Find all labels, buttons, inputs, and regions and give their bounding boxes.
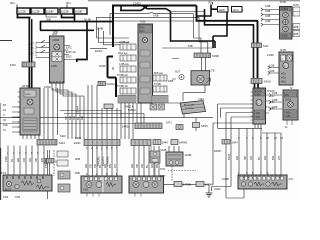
svg-text:5471: 5471 [166, 121, 172, 125]
svg-text:30+: 30+ [10, 1, 15, 5]
svg-text:4/2x: 4/2x [281, 72, 287, 76]
svg-text:BL/R: BL/R [227, 154, 231, 160]
svg-text:X: X [3, 113, 5, 117]
svg-text:31/6B: 31/6B [222, 177, 229, 181]
svg-text:54R2A: 54R2A [128, 108, 136, 112]
svg-text:SB: SB [243, 156, 247, 160]
svg-text:830B: 830B [75, 136, 81, 140]
svg-text:11C28: 11C28 [32, 10, 40, 14]
svg-text:BL: BL [10, 158, 14, 162]
svg-text:BL: BL [145, 164, 149, 168]
svg-text:*2/3B: *2/3B [160, 148, 167, 152]
svg-text:PNK/BL: PNK/BL [44, 158, 48, 168]
svg-text:31/5: 31/5 [3, 195, 9, 199]
svg-text:6/2T: 6/2T [175, 70, 181, 74]
svg-text:54R2B: 54R2B [183, 183, 191, 187]
svg-text:GN: GN [28, 158, 32, 162]
svg-text:4/5x: 4/5x [256, 116, 261, 119]
svg-text:5A16: 5A16 [59, 141, 66, 145]
svg-text:4DB: 4DB [75, 157, 80, 161]
svg-text:E4407: E4407 [95, 49, 103, 53]
svg-text:A/5B: A/5B [153, 14, 159, 18]
svg-text:57/3B wb: 57/3B wb [117, 73, 128, 77]
svg-text:3/4B: 3/4B [265, 14, 271, 18]
svg-text:5447: 5447 [232, 141, 238, 145]
svg-text:5411: 5411 [263, 44, 269, 48]
svg-text:54B: 54B [188, 44, 193, 48]
svg-text:5/12 ww: 5/12 ww [118, 51, 128, 55]
svg-text:3/2B: 3/2B [272, 105, 278, 109]
svg-text:E/5C: E/5C [66, 46, 72, 50]
svg-text:SB: SB [135, 164, 139, 168]
svg-text:2/2B: 2/2B [269, 69, 275, 73]
svg-text:4/5x: 4/5x [286, 115, 291, 118]
svg-text:30: 30 [111, 66, 115, 70]
svg-text:3/2B: 3/2B [294, 27, 299, 29]
svg-text:12/5A: 12/5A [44, 85, 51, 89]
svg-text:4/5B: 4/5B [140, 20, 146, 24]
svg-text:544/2A: 544/2A [107, 82, 115, 86]
svg-text:GN: GN [150, 164, 154, 168]
svg-text:GR: GR [235, 156, 239, 160]
svg-text:30/D8: 30/D8 [281, 35, 288, 38]
svg-text:11C4: 11C4 [233, 8, 240, 12]
svg-text:54R4A: 54R4A [205, 183, 213, 187]
svg-text:WT: WT [277, 155, 281, 160]
svg-text:C87: C87 [29, 42, 34, 46]
svg-text:PNK/BL: PNK/BL [97, 156, 101, 166]
svg-text:11C28: 11C28 [18, 10, 26, 14]
svg-text:A73B wb: A73B wb [119, 40, 130, 44]
svg-text:7423: 7423 [198, 97, 204, 101]
svg-text:CDR: CDR [53, 38, 60, 42]
svg-text:30 4B: 30 4B [84, 18, 91, 22]
svg-text:GR: GR [16, 158, 20, 162]
svg-text:4/7x: 4/7x [140, 30, 145, 33]
svg-text:1/2B: 1/2B [269, 64, 275, 68]
svg-text:100D8: 100D8 [281, 8, 289, 11]
svg-text:5449: 5449 [162, 141, 168, 145]
svg-text:R2907: R2907 [214, 149, 222, 153]
svg-text:N/TD: N/TD [280, 0, 286, 4]
svg-text:3/136: 3/136 [22, 84, 29, 88]
svg-text:BN: BN [155, 164, 159, 168]
svg-text:11D8: 11D8 [219, 8, 226, 12]
svg-text:AC COMP: AC COMP [184, 104, 195, 107]
svg-text:12/5x: 12/5x [51, 64, 58, 68]
svg-text:1/TB: 1/TB [209, 69, 215, 73]
svg-text:4/5x: 4/5x [281, 80, 287, 84]
svg-text:57/3B wb: 57/3B wb [117, 84, 128, 88]
svg-text:1/2B: 1/2B [272, 91, 278, 95]
svg-text:M/8 ww: M/8 ww [154, 71, 163, 75]
svg-text:CAM: CAM [255, 94, 260, 97]
svg-text:5410: 5410 [60, 134, 66, 138]
svg-text:31/4B: 31/4B [97, 27, 104, 31]
svg-text:54/9B: 54/9B [212, 54, 219, 58]
svg-text:30B: 30B [46, 18, 51, 22]
svg-text:30/38: 30/38 [99, 64, 106, 68]
svg-text:BN: BN [108, 164, 112, 168]
svg-text:57/3B: 57/3B [154, 82, 161, 86]
svg-text:4/56: 4/56 [53, 30, 59, 34]
svg-text:C87: C87 [29, 52, 34, 56]
svg-text:3/136: 3/136 [25, 94, 31, 96]
svg-text:N/TB: N/TB [280, 48, 286, 52]
svg-text:N/TL: N/TL [160, 167, 166, 171]
svg-text:SB: SB [89, 164, 93, 168]
svg-text:31/62: 31/62 [214, 187, 221, 191]
svg-text:4/2x: 4/2x [256, 112, 261, 115]
svg-text:BN: BN [271, 156, 275, 160]
svg-text:12/3B: 12/3B [185, 153, 192, 157]
svg-text:PNK: PNK [4, 156, 8, 162]
svg-text:4/2x: 4/2x [286, 111, 291, 114]
svg-text:15E: 15E [3, 123, 8, 127]
svg-text:IV: IV [290, 86, 293, 90]
svg-text:E/5C wb: E/5C wb [66, 50, 76, 54]
svg-text:BL: BL [257, 156, 261, 160]
svg-text:4/5x: 4/5x [281, 76, 287, 80]
svg-text:54R2A: 54R2A [122, 125, 130, 129]
svg-text:M/7S: M/7S [0, 171, 6, 175]
svg-text:5456: 5456 [201, 124, 208, 128]
svg-text:1/4B ww: 1/4B ww [119, 62, 129, 66]
svg-text:SB: SB [34, 158, 38, 162]
svg-text:a79: a79 [289, 177, 294, 181]
svg-text:WT: WT [113, 163, 117, 168]
svg-text:CLUTCH: CLUTCH [185, 108, 194, 110]
svg-text:4/5B: 4/5B [168, 79, 174, 83]
svg-text:E/5C: E/5C [66, 55, 72, 59]
svg-text:54/8Z A: 54/8Z A [125, 105, 134, 109]
svg-text:11G87: 11G87 [46, 10, 54, 14]
svg-text:N/TX: N/TX [293, 3, 299, 7]
svg-text:GN: GN [80, 116, 84, 120]
svg-text:54R4B: 54R4B [179, 141, 187, 145]
svg-text:GR: GR [130, 164, 134, 168]
svg-text:BL: BL [98, 164, 102, 168]
svg-text:E10D: E10D [74, 141, 81, 145]
svg-text:3/2B: 3/2B [294, 34, 299, 36]
svg-text:14/99: 14/99 [267, 53, 274, 57]
svg-text:11C28: 11C28 [61, 10, 69, 14]
svg-text:14/2: 14/2 [83, 188, 89, 192]
svg-text:E10x4: E10x4 [76, 106, 80, 114]
svg-text:C87: C87 [29, 47, 34, 51]
svg-text:2/2B: 2/2B [272, 98, 278, 102]
svg-text:30+: 30+ [208, 1, 213, 5]
svg-text:1/4B: 1/4B [265, 4, 271, 8]
svg-text:M/7S: M/7S [5, 188, 11, 192]
svg-text:C2425: C2425 [133, 2, 141, 6]
svg-text:GN: GN [103, 164, 107, 168]
svg-text:5410: 5410 [10, 63, 16, 67]
svg-text:4/4B: 4/4B [265, 19, 271, 23]
svg-text:GR: GR [84, 164, 88, 168]
svg-text:30+: 30+ [66, 1, 71, 5]
svg-text:11G87: 11G87 [75, 10, 83, 14]
svg-text:82B: 82B [75, 171, 80, 175]
svg-text:30/D8: 30/D8 [285, 100, 292, 102]
svg-text:2/4B: 2/4B [265, 9, 271, 13]
svg-text:31/5: 31/5 [15, 195, 21, 199]
svg-text:5/7T: 5/7T [160, 174, 166, 178]
svg-text:54/1A: 54/1A [264, 80, 271, 84]
svg-text:GN: GN [263, 156, 267, 160]
